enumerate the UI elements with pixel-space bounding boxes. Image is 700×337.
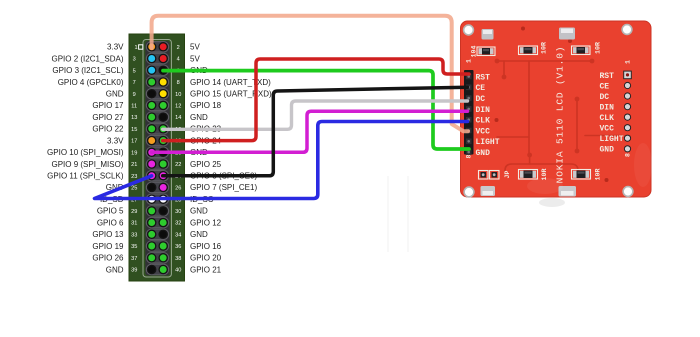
svg-text:39: 39 — [131, 268, 137, 274]
svg-text:VCC: VCC — [476, 127, 491, 136]
svg-text:23: 23 — [131, 174, 137, 180]
svg-text:DC: DC — [476, 95, 486, 104]
svg-text:40: 40 — [175, 268, 181, 274]
svg-text:5V: 5V — [190, 54, 200, 63]
svg-text:10: 10 — [175, 92, 181, 98]
svg-text:LIGHT: LIGHT — [600, 135, 624, 144]
svg-text:CLK: CLK — [476, 117, 491, 126]
svg-text:3: 3 — [133, 57, 136, 63]
svg-text:10R: 10R — [541, 42, 548, 54]
svg-text:17: 17 — [131, 139, 137, 145]
svg-text:JP: JP — [504, 171, 511, 179]
svg-text:26: 26 — [175, 186, 181, 192]
svg-text:CE: CE — [600, 82, 610, 91]
svg-text:8: 8 — [625, 153, 632, 157]
svg-text:10R: 10R — [595, 169, 602, 181]
svg-text:1: 1 — [625, 60, 632, 64]
svg-text:GPIO 7 (SPI_CE1): GPIO 7 (SPI_CE1) — [190, 183, 257, 192]
svg-text:32: 32 — [175, 221, 181, 227]
svg-text:GND: GND — [600, 146, 615, 155]
svg-text:4: 4 — [177, 57, 180, 63]
svg-text:5: 5 — [133, 68, 136, 74]
svg-text:GPIO 10 (SPI_MOSI): GPIO 10 (SPI_MOSI) — [47, 148, 124, 157]
svg-text:2: 2 — [177, 45, 180, 51]
svg-text:8: 8 — [177, 80, 180, 86]
svg-text:GND: GND — [190, 230, 208, 239]
svg-text:37: 37 — [131, 256, 137, 262]
svg-text:GPIO 13: GPIO 13 — [92, 230, 124, 239]
svg-text:31: 31 — [131, 221, 137, 227]
svg-text:RST: RST — [600, 72, 615, 81]
svg-text:33: 33 — [131, 232, 137, 238]
svg-text:3.3V: 3.3V — [107, 136, 124, 145]
svg-text:35: 35 — [131, 244, 137, 250]
svg-text:DC: DC — [600, 93, 610, 102]
svg-text:GPIO 12: GPIO 12 — [190, 218, 222, 227]
svg-text:12: 12 — [175, 104, 181, 110]
svg-text:21: 21 — [131, 162, 137, 168]
svg-text:GND: GND — [476, 149, 491, 158]
svg-text:GPIO 3 (I2C1_SCL): GPIO 3 (I2C1_SCL) — [52, 66, 123, 75]
svg-text:GPIO 6: GPIO 6 — [97, 218, 124, 227]
svg-text:GPIO 2 (I2C1_SDA): GPIO 2 (I2C1_SDA) — [51, 54, 123, 63]
svg-text:10R: 10R — [595, 42, 602, 54]
svg-text:CE: CE — [476, 84, 486, 93]
svg-text:25: 25 — [131, 186, 137, 192]
svg-text:1: 1 — [135, 45, 138, 51]
svg-text:GPIO 25: GPIO 25 — [190, 160, 222, 169]
svg-text:29: 29 — [131, 209, 137, 215]
svg-text:GPIO 21: GPIO 21 — [190, 265, 222, 274]
svg-text:NOKIA 5110 LCD (V1.0): NOKIA 5110 LCD (V1.0) — [555, 46, 566, 184]
svg-text:30: 30 — [175, 209, 181, 215]
svg-text:GPIO 4 (GPCLK0): GPIO 4 (GPCLK0) — [58, 78, 124, 87]
svg-text:DIN: DIN — [476, 106, 491, 115]
svg-text:19: 19 — [131, 150, 137, 156]
svg-text:1: 1 — [466, 59, 473, 63]
svg-text:GND: GND — [190, 207, 208, 216]
svg-text:GPIO 18: GPIO 18 — [190, 101, 222, 110]
svg-text:GPIO 17: GPIO 17 — [92, 101, 124, 110]
svg-text:VCC: VCC — [600, 125, 615, 134]
svg-text:38: 38 — [175, 256, 181, 262]
svg-text:104: 104 — [470, 46, 477, 58]
svg-text:34: 34 — [175, 232, 181, 238]
svg-text:GPIO 15 (UART_RXD): GPIO 15 (UART_RXD) — [190, 90, 272, 99]
svg-text:13: 13 — [131, 115, 137, 121]
svg-text:GPIO 20: GPIO 20 — [190, 254, 222, 263]
svg-text:7: 7 — [133, 80, 136, 86]
svg-text:GPIO 19: GPIO 19 — [92, 242, 124, 251]
svg-text:GPIO 16: GPIO 16 — [190, 242, 222, 251]
svg-text:CLK: CLK — [600, 114, 615, 123]
svg-text:GPIO 9 (SPI_MISO): GPIO 9 (SPI_MISO) — [51, 160, 123, 169]
svg-text:GND: GND — [190, 113, 208, 122]
svg-text:GND: GND — [106, 265, 124, 274]
svg-text:GPIO 11 (SPI_SCLK): GPIO 11 (SPI_SCLK) — [47, 172, 124, 181]
svg-text:GPIO 27: GPIO 27 — [92, 113, 124, 122]
svg-text:8: 8 — [466, 154, 473, 158]
svg-text:GND: GND — [106, 90, 124, 99]
svg-text:GPIO 26: GPIO 26 — [92, 254, 124, 263]
svg-text:11: 11 — [131, 104, 137, 110]
svg-text:GPIO 5: GPIO 5 — [97, 207, 124, 216]
svg-text:22: 22 — [175, 162, 181, 168]
svg-text:GPIO 14 (UART_TXD): GPIO 14 (UART_TXD) — [190, 78, 271, 87]
svg-text:15: 15 — [131, 127, 137, 133]
svg-text:DIN: DIN — [600, 104, 615, 113]
svg-text:5V: 5V — [190, 43, 200, 52]
svg-text:RST: RST — [476, 73, 491, 82]
svg-text:9: 9 — [133, 92, 136, 98]
svg-text:36: 36 — [175, 244, 181, 250]
svg-text:GPIO 22: GPIO 22 — [92, 125, 124, 134]
svg-text:3.3V: 3.3V — [107, 43, 124, 52]
svg-text:LIGHT: LIGHT — [476, 138, 500, 147]
svg-text:14: 14 — [175, 115, 181, 121]
